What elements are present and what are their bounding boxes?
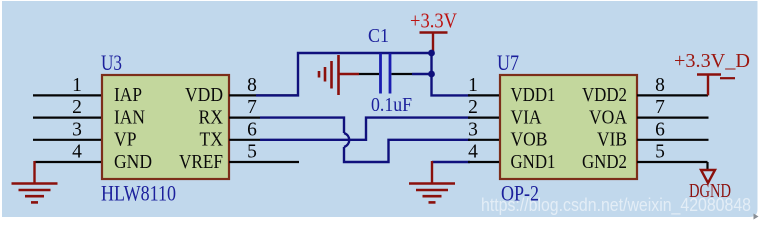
svg-text:GND2: GND2 bbox=[582, 151, 627, 173]
svg-text:8: 8 bbox=[247, 75, 257, 96]
svg-text:VREF: VREF bbox=[179, 151, 223, 173]
svg-text:VOA: VOA bbox=[589, 106, 627, 128]
wire TX to VIA bbox=[260, 118, 470, 140]
svg-text:VIA: VIA bbox=[511, 106, 542, 128]
earth ground at C1 bbox=[319, 55, 359, 95]
svg-text:5: 5 bbox=[655, 142, 665, 163]
svg-text:3: 3 bbox=[72, 119, 82, 140]
svg-text:3: 3 bbox=[468, 119, 478, 140]
svg-text:4: 4 bbox=[72, 142, 82, 163]
svg-text:2: 2 bbox=[468, 97, 478, 118]
U3 pin 6 TX bbox=[200, 119, 261, 150]
svg-text:HLW8110: HLW8110 bbox=[101, 181, 176, 206]
power +3.3V bbox=[410, 9, 457, 54]
wire +3.3V vertical to U7 pin1 bbox=[432, 53, 471, 95]
svg-text:0.1uF: 0.1uF bbox=[371, 94, 412, 116]
svg-text:1: 1 bbox=[468, 75, 478, 96]
wire RX to VOB with hop bbox=[260, 118, 470, 162]
wire GND1 to ground bbox=[432, 161, 470, 163]
svg-text:VP: VP bbox=[114, 129, 137, 151]
svg-text:VDD1: VDD1 bbox=[511, 84, 556, 106]
svg-text:7: 7 bbox=[655, 97, 665, 118]
U7 pin 1 VDD1 bbox=[468, 75, 556, 106]
svg-text:2: 2 bbox=[72, 97, 82, 118]
ground symbol at U3 GND bbox=[12, 161, 58, 202]
junction at C1 lead bbox=[428, 71, 435, 78]
U3 pin 7 RX bbox=[199, 97, 261, 128]
power +3.3V_D bbox=[674, 50, 750, 95]
svg-text:7: 7 bbox=[247, 97, 257, 118]
svg-text:5: 5 bbox=[247, 142, 257, 163]
svg-text:IAN: IAN bbox=[114, 106, 145, 128]
U7 pin 7 VOA bbox=[589, 97, 709, 128]
svg-text:TX: TX bbox=[200, 129, 224, 151]
U3 pin 5 VREF bbox=[179, 142, 299, 173]
svg-text:6: 6 bbox=[655, 119, 665, 140]
svg-text:+3.3V_D: +3.3V_D bbox=[674, 50, 750, 72]
svg-text:DGND: DGND bbox=[689, 180, 731, 202]
svg-text:C1: C1 bbox=[368, 25, 389, 47]
U3 pin 3 VP bbox=[33, 119, 137, 150]
U3 pin 8 VDD bbox=[185, 75, 298, 106]
svg-text:GND1: GND1 bbox=[511, 151, 556, 173]
IC U3 body bbox=[102, 75, 229, 179]
svg-text:U7: U7 bbox=[497, 50, 519, 75]
svg-text:VDD: VDD bbox=[185, 84, 223, 106]
svg-text:IAP: IAP bbox=[114, 84, 142, 106]
U7 pin 5 GND2 bbox=[582, 142, 708, 173]
svg-text:6: 6 bbox=[247, 119, 257, 140]
IC U7 body bbox=[500, 75, 637, 179]
svg-text:VIB: VIB bbox=[597, 129, 627, 151]
svg-text:GND: GND bbox=[114, 151, 152, 173]
U3 pin 1 IAP bbox=[33, 75, 142, 106]
ground symbol at U7 GND1 bbox=[409, 161, 455, 202]
svg-text:1: 1 bbox=[72, 75, 82, 96]
svg-text:RX: RX bbox=[199, 106, 224, 128]
svg-text:4: 4 bbox=[468, 142, 478, 163]
U7 pin 8 VDD2 bbox=[582, 75, 708, 106]
power ground DGND bbox=[689, 162, 731, 202]
U7 pin 4 GND1 bbox=[468, 142, 556, 173]
svg-text:+3.3V: +3.3V bbox=[410, 9, 457, 33]
svg-text:U3: U3 bbox=[101, 50, 122, 75]
junction at top wire bbox=[428, 50, 435, 57]
wire VDD net: pin8 riser and top run bbox=[256, 53, 432, 95]
svg-text:OP-2: OP-2 bbox=[501, 181, 539, 206]
svg-text:VOB: VOB bbox=[511, 129, 548, 151]
svg-text:VDD2: VDD2 bbox=[582, 84, 627, 106]
U3 pin 4 GND bbox=[35, 142, 153, 173]
U7 pin 3 VOB bbox=[468, 119, 548, 150]
svg-text:8: 8 bbox=[655, 75, 665, 96]
U7 pin 2 VIA bbox=[468, 97, 542, 128]
U3 pin 2 IAN bbox=[33, 97, 145, 128]
capacitor C1 bbox=[359, 54, 432, 94]
U7 pin 6 VIB bbox=[597, 119, 709, 150]
